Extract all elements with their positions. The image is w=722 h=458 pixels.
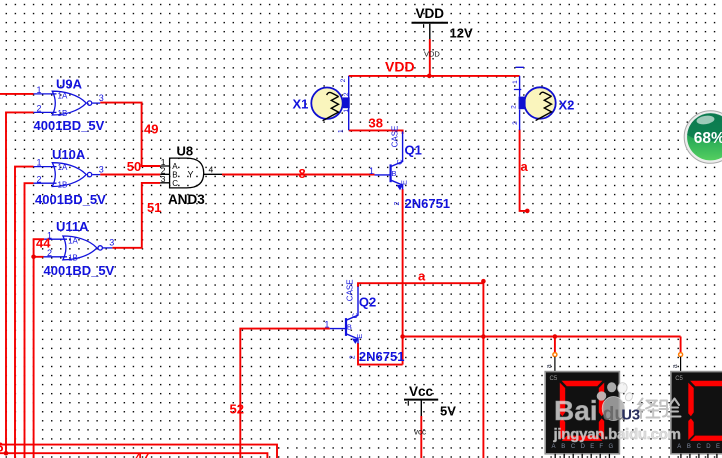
svg-text:1A: 1A xyxy=(58,92,68,101)
nor gate U10A xyxy=(34,147,107,207)
svg-text:1B: 1B xyxy=(58,180,68,189)
svg-text:AND3: AND3 xyxy=(168,192,205,207)
svg-text:U8: U8 xyxy=(177,144,194,159)
svg-text:a: a xyxy=(546,364,553,368)
seven segment display U3 (left) xyxy=(545,353,619,458)
svg-text:52: 52 xyxy=(230,402,244,417)
svg-text:G: G xyxy=(609,444,614,450)
badge 68 percent xyxy=(684,111,722,164)
wire U9A input 1 xyxy=(0,93,34,95)
svg-text:44: 44 xyxy=(36,236,51,251)
svg-text:U3: U3 xyxy=(622,408,641,424)
svg-text:E: E xyxy=(400,180,409,185)
seven segment display (right, clipped) xyxy=(671,353,722,458)
wire net 50 xyxy=(100,174,160,176)
svg-text:vcc: vcc xyxy=(414,428,426,437)
svg-text:C: C xyxy=(172,179,178,188)
svg-text:8: 8 xyxy=(299,166,306,181)
wire net 38 xyxy=(349,130,403,134)
svg-text:D: D xyxy=(706,444,711,450)
svg-text:E: E xyxy=(716,444,720,450)
svg-text:U11A: U11A xyxy=(56,219,89,234)
wire U9A input 2 bus (x6 vertical to bottom line 2) xyxy=(6,112,34,453)
svg-text:47: 47 xyxy=(135,450,149,458)
svg-text:4: 4 xyxy=(209,164,214,174)
svg-text:12V: 12V xyxy=(450,25,473,40)
svg-text:X2: X2 xyxy=(559,98,575,113)
svg-text:2: 2 xyxy=(37,174,42,184)
svg-text:VDD: VDD xyxy=(415,6,444,21)
svg-text:4001BD_5V: 4001BD_5V xyxy=(35,192,106,207)
wire net 51 xyxy=(112,183,160,248)
svg-text:4001BD_5V: 4001BD_5V xyxy=(44,263,115,278)
svg-text:U10A: U10A xyxy=(52,147,86,162)
watermark baidu logo xyxy=(554,382,634,426)
svg-text:X1: X1 xyxy=(293,96,309,111)
junction bottom line 2 xyxy=(4,451,9,456)
svg-text:E: E xyxy=(590,444,594,450)
watermark jingyan characters xyxy=(638,399,681,419)
svg-text:VDD: VDD xyxy=(424,50,440,59)
svg-text:1: 1 xyxy=(338,129,345,133)
wire x483 vertical xyxy=(482,281,484,458)
svg-text:3: 3 xyxy=(99,93,104,103)
svg-text:A: A xyxy=(677,444,681,450)
svg-text:U9A: U9A xyxy=(56,77,83,92)
junction display1 drop xyxy=(553,334,558,339)
wire U10A input 1 bus (x15 vertical) xyxy=(15,167,34,458)
lamp X1 xyxy=(293,76,351,133)
svg-text:Q2: Q2 xyxy=(359,294,376,309)
wire bottom line 2 xyxy=(0,453,267,458)
svg-text:38: 38 xyxy=(369,116,383,131)
wire U11A input bus net 44 (x33.6 vertical) xyxy=(34,239,45,458)
svg-text:1: 1 xyxy=(37,85,42,95)
wire net a horizontal xyxy=(358,283,483,287)
wire display1 drop xyxy=(554,337,556,353)
svg-text:5V: 5V xyxy=(440,404,456,419)
svg-text:a: a xyxy=(521,159,529,174)
svg-text:51: 51 xyxy=(147,200,161,215)
svg-text:2: 2 xyxy=(343,92,350,96)
svg-text:C5: C5 xyxy=(675,376,683,382)
svg-text:C5: C5 xyxy=(550,376,558,382)
svg-text:4001BD_5V: 4001BD_5V xyxy=(34,118,105,133)
wire net 49 xyxy=(100,103,160,166)
svg-text:jingyan.baidu.com: jingyan.baidu.com xyxy=(553,426,682,443)
svg-text:1: 1 xyxy=(324,320,329,330)
svg-text:VDD: VDD xyxy=(385,59,415,75)
svg-text:D: D xyxy=(581,444,586,450)
svg-text:Q1: Q1 xyxy=(405,143,422,158)
svg-text:A: A xyxy=(552,444,556,450)
svg-text:2N6751: 2N6751 xyxy=(405,196,451,211)
svg-text:CASE: CASE xyxy=(390,126,399,148)
svg-text:E: E xyxy=(355,334,364,339)
svg-text:2: 2 xyxy=(512,121,519,125)
svg-text:1: 1 xyxy=(37,158,42,168)
svg-text:a: a xyxy=(418,269,426,284)
svg-text:2: 2 xyxy=(349,355,356,359)
svg-text:C: C xyxy=(697,444,702,450)
wire Q2 emitter loop xyxy=(358,343,403,365)
svg-text:1: 1 xyxy=(512,80,519,84)
transistor Q2 xyxy=(324,279,404,364)
wire bottom line 1 xyxy=(0,445,277,458)
power supply VDD 12V xyxy=(412,6,473,76)
wire net 8 xyxy=(222,174,375,176)
svg-text:F: F xyxy=(599,444,603,450)
wire VDD top rail xyxy=(349,75,520,77)
junction emitter x anode line xyxy=(400,334,405,339)
svg-text:3: 3 xyxy=(99,164,104,174)
svg-text:C: C xyxy=(350,312,359,318)
svg-text:B: B xyxy=(347,323,352,332)
transistor Q1 xyxy=(369,126,450,211)
junction x483 on anode line xyxy=(481,334,486,339)
junction VDD on top rail xyxy=(427,74,432,79)
svg-text:2N6751: 2N6751 xyxy=(359,349,405,364)
svg-text:46: 46 xyxy=(0,440,3,455)
lamp X2 xyxy=(511,67,575,130)
svg-text:68%: 68% xyxy=(694,130,722,147)
svg-text:B: B xyxy=(561,444,565,450)
wire X2 bottom net a xyxy=(520,130,528,211)
nor gate U11A xyxy=(44,219,115,278)
power supply Vcc 5V xyxy=(404,384,456,437)
svg-text:1A: 1A xyxy=(68,236,78,245)
svg-text:2: 2 xyxy=(511,105,518,109)
svg-text:2: 2 xyxy=(394,201,401,205)
wire net 52 xyxy=(240,329,330,458)
svg-text:B: B xyxy=(687,444,691,450)
svg-text:Y: Y xyxy=(188,170,194,180)
svg-text:2: 2 xyxy=(37,104,42,114)
svg-text:1: 1 xyxy=(369,166,374,176)
svg-text:Vcc: Vcc xyxy=(409,384,434,399)
wire display2 drop xyxy=(680,337,682,353)
svg-text:1A: 1A xyxy=(58,163,68,172)
svg-text:3: 3 xyxy=(109,238,114,248)
svg-text:C: C xyxy=(571,444,576,450)
svg-text:a: a xyxy=(672,364,679,368)
svg-text:B: B xyxy=(392,169,397,178)
svg-text:C: C xyxy=(395,159,404,165)
svg-text:1: 1 xyxy=(343,109,350,113)
junction U11A pin2 xyxy=(31,254,36,259)
wire U10A input 2 bus (x24.5 vertical) xyxy=(25,183,34,458)
junction X2 bottom end xyxy=(525,209,530,214)
wire Vcc down xyxy=(420,416,422,458)
svg-text:50: 50 xyxy=(127,159,141,174)
svg-text:1B: 1B xyxy=(68,254,78,263)
svg-text:1B: 1B xyxy=(58,109,68,118)
junction net a right end xyxy=(481,279,486,284)
svg-text:Bai: Bai xyxy=(554,395,598,426)
nor gate U9A xyxy=(34,77,105,133)
svg-text:49: 49 xyxy=(144,122,158,137)
svg-text:2: 2 xyxy=(340,78,347,82)
and gate U8 xyxy=(160,144,222,208)
svg-text:CASE: CASE xyxy=(346,279,355,301)
wire display anode line y336 xyxy=(403,336,681,338)
svg-text:3: 3 xyxy=(161,174,166,184)
wire Q1 emitter vertical xyxy=(402,189,404,365)
